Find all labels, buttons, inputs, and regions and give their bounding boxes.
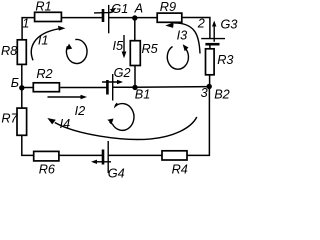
wire G1 to node A to R9 [109, 17, 157, 19]
resistor R8 [1, 40, 26, 65]
svg-text:I5: I5 [113, 39, 125, 53]
svg-text:R3: R3 [217, 53, 233, 67]
wire node A to R5 [134, 18, 136, 41]
svg-text:B1: B1 [135, 87, 151, 101]
svg-text:R4: R4 [172, 162, 188, 176]
svg-text:3: 3 [201, 86, 208, 100]
wire R3 to node 3 [209, 76, 211, 87]
svg-text:I4: I4 [60, 117, 71, 131]
wire R2 to G2 [60, 87, 107, 89]
wire R7 to bottom-left corner to R6 [22, 136, 34, 156]
resistor R9 [157, 0, 182, 22]
svg-text:I3: I3 [177, 28, 188, 42]
svg-text:G4: G4 [108, 167, 125, 179]
node Б [11, 76, 25, 91]
svg-text:G3: G3 [221, 18, 238, 32]
resistor R7 [1, 108, 26, 135]
wire R5 to node B1 [134, 66, 136, 88]
svg-text:R8: R8 [1, 44, 17, 58]
wire G4 to R4 [108, 154, 162, 156]
current arrow I1 [31, 26, 65, 61]
svg-text:G1: G1 [111, 2, 128, 16]
svg-text:B2: B2 [214, 88, 230, 102]
svg-text:2: 2 [197, 17, 205, 31]
current arrow I2 [48, 95, 88, 118]
svg-text:I1: I1 [38, 33, 49, 47]
svg-text:R9: R9 [160, 0, 176, 14]
svg-text:R5: R5 [142, 42, 159, 56]
mesh current loop bottom-middle [107, 103, 134, 130]
wire G3 to R3 [209, 44, 211, 48]
mesh current loop top-right [167, 44, 188, 69]
wire R1 to G1 [62, 17, 103, 19]
svg-text:1: 1 [22, 16, 29, 30]
wire node Б to R7 [21, 88, 23, 108]
svg-text:R2: R2 [36, 67, 52, 81]
resistor R6 [34, 151, 59, 176]
current arrow I5 [113, 35, 127, 58]
EMF source G3 [201, 18, 237, 45]
svg-text:A: A [134, 1, 143, 15]
svg-text:R6: R6 [39, 162, 56, 176]
current arrow I3 [165, 22, 200, 53]
resistor R5 [130, 41, 158, 66]
wire node B1 to node 3 [135, 86, 209, 89]
resistor R1 [35, 0, 62, 22]
wire R6 to G4 [59, 154, 103, 156]
mesh current loop top-left [66, 39, 87, 63]
svg-text:I2: I2 [75, 104, 86, 118]
EMF source G4 [91, 141, 125, 181]
wire node Б to R2 [22, 87, 34, 89]
EMF source G2 [102, 66, 131, 100]
svg-text:R1: R1 [35, 0, 51, 13]
svg-text:Б: Б [11, 76, 19, 90]
wire G2 to node B1 [113, 86, 135, 88]
current arrow I4 [47, 117, 197, 139]
wire R8 to node Б [21, 65, 23, 88]
node A [132, 1, 143, 20]
EMF source G1 [94, 2, 128, 33]
wire node 3 down to bottom-right corner to R4 [187, 87, 209, 156]
wire R9 to top-right corner down to G3 [183, 18, 210, 39]
node 3 / B2 [201, 84, 230, 102]
svg-text:R7: R7 [1, 112, 18, 126]
resistor R2 [33, 67, 59, 92]
wire top-left corner to R1 [22, 18, 34, 40]
node B1 [132, 85, 150, 102]
resistor R4 [162, 151, 188, 177]
svg-text:G2: G2 [114, 66, 131, 80]
resistor R3 [206, 49, 234, 75]
